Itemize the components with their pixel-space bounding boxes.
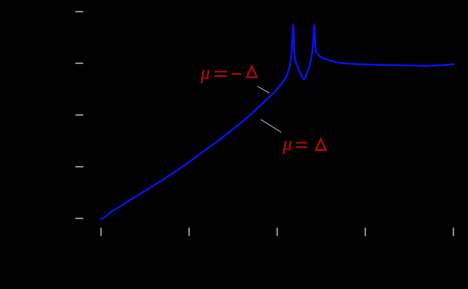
leader line to mu = Delta: [261, 120, 282, 133]
y-axis tick 2: [75, 62, 83, 64]
label mu = Delta : Delta triangle: [316, 139, 326, 150]
svg-text:μ: μ: [282, 135, 292, 155]
label mu = Delta : equals sign: [296, 143, 307, 148]
blue response curve with two resonance peaks: [101, 25, 454, 218]
x-axis tick 2: [188, 228, 190, 236]
y-axis tick 3: [75, 114, 83, 116]
label mu = -Delta : equals sign: [214, 72, 227, 77]
x-axis tick 1: [100, 228, 102, 236]
y-axis tick 1: [75, 11, 83, 13]
x-axis tick 4: [364, 228, 366, 236]
y-axis tick 5: [75, 217, 83, 219]
label mu = -Delta : Delta triangle: [247, 66, 257, 77]
label mu = -Delta : minus sign: [232, 73, 242, 75]
leader line to mu = -Delta: [257, 86, 269, 93]
y-axis tick 4: [75, 166, 83, 168]
x-axis tick 5: [452, 228, 454, 236]
svg-text:μ: μ: [200, 64, 210, 84]
x-axis tick 3: [276, 228, 278, 236]
